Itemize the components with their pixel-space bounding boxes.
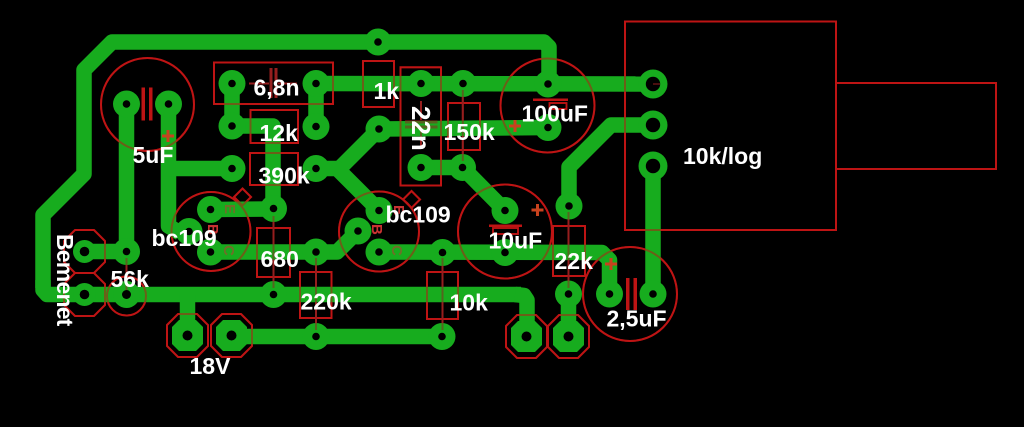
capacitor C1 6.8n plate bar 2 xyxy=(275,68,278,98)
svg-text:Bemenet: Bemenet xyxy=(52,234,78,327)
wire pot pad 3 down to 2.5uF right pad xyxy=(645,166,661,294)
svg-text:C: C xyxy=(220,245,237,256)
pad 5uF right xyxy=(155,91,182,118)
pad Q1 base xyxy=(176,218,203,245)
svg-text:10k/log: 10k/log xyxy=(683,143,762,169)
pad 680 bottom R4 pin 2 xyxy=(260,281,287,308)
svg-text:150k: 150k xyxy=(444,119,495,145)
capacitor C0 5uF plate bar 2 xyxy=(149,88,153,121)
svg-text:390k: 390k xyxy=(259,163,310,189)
capacitor C5 100uF plate box xyxy=(550,103,567,109)
resistor R4 680 lead xyxy=(273,216,275,288)
wire 150k bottom diagonal to 10uF plus xyxy=(463,168,506,211)
potentiometer 10k/log shaft outline xyxy=(836,83,996,169)
capacitor C6 2.5uF plate bar 2 xyxy=(634,278,638,310)
svg-text:1k: 1k xyxy=(374,78,400,104)
octagon outline output pad left xyxy=(506,315,547,358)
pad 10k bottom R7 pin 2 xyxy=(429,323,456,350)
pad 12k left R2 pin 1 xyxy=(219,113,246,140)
silkscreen layer pass 1 (bright on bare board) xyxy=(64,22,996,359)
wire 5uF right pad down (bar B) to Q1 base xyxy=(169,104,181,233)
capacitor C4 10uF plate box xyxy=(493,228,518,234)
capacitor C5 100uF outline xyxy=(501,59,595,153)
pad 22n top C2 pin 1 xyxy=(408,70,435,97)
capacitor C2 22n outline xyxy=(401,67,442,185)
wire pot pad 2 to 22k top pad xyxy=(569,125,653,206)
pad potentiometer pin 3 xyxy=(639,152,668,181)
pad Bemenet pin 1 xyxy=(73,240,96,263)
wire bar B to 390k left pad y=168.5 xyxy=(169,161,233,177)
pad potentiometer pin 2 xyxy=(639,111,668,140)
resistor R3 390k outline xyxy=(250,153,298,185)
pad 10uF minus xyxy=(492,239,519,266)
resistor R7 10k outline xyxy=(427,272,458,319)
diamond marker at Q1 xyxy=(234,189,251,206)
svg-text:B: B xyxy=(368,224,385,235)
pad junction on top trace xyxy=(365,29,392,56)
resistor R5 150k outline xyxy=(448,103,480,150)
svg-text:100uF: 100uF xyxy=(522,101,588,127)
resistor R8 22k lead xyxy=(568,212,570,288)
pad 12k right R2 pin 2 xyxy=(303,113,330,140)
capacitor C2 22n plate bar 1 xyxy=(405,121,438,124)
pad 22k top R8 pin 1 xyxy=(556,193,583,220)
pad 150k bottom R5 pin 2 xyxy=(449,154,476,181)
resistor R6 220k outline xyxy=(300,272,332,318)
transistor Q2 bc109 outline xyxy=(339,192,419,272)
diamond marker at Q2 xyxy=(403,191,420,208)
capacitor C4 10uF outline xyxy=(458,185,552,279)
pad 2.5uF minus (left) xyxy=(596,281,623,308)
pad 18V supply pin 1 (octagon) xyxy=(172,320,203,351)
wire Q1 emitter to 680 top pad xyxy=(211,201,274,217)
silkscreen layer pass 2 (50% blend where over copper) xyxy=(64,22,996,359)
capacitor C1 6.8n lead right xyxy=(278,83,297,85)
svg-text:10k: 10k xyxy=(450,290,489,316)
pad 2.5uF plus (right) xyxy=(640,281,667,308)
pad output octagon right xyxy=(553,321,584,352)
plus mark of 2.5uF xyxy=(605,258,617,270)
wire 12k left pad to 680 top via vertical x=273 xyxy=(232,126,273,209)
pad junction x=379 y=129 xyxy=(366,116,393,143)
wire ground trace corner down to output pad xyxy=(515,295,527,337)
wire branch down to 18V pad 1 xyxy=(180,295,196,336)
octagon outline Bemenet pad 2 xyxy=(64,273,105,316)
svg-text:5uF: 5uF xyxy=(133,142,174,168)
capacitor C1 6.8n lead left xyxy=(249,83,269,85)
resistor R1 56k outline (vertical package) xyxy=(107,277,146,316)
pad 6.8n right C1 pin 2 xyxy=(303,70,330,97)
svg-text:22k: 22k xyxy=(555,248,594,274)
pad potentiometer pin 1 xyxy=(639,70,668,99)
resistor R1 56k lead xyxy=(126,258,128,290)
pad 680 top R4 pin 1 xyxy=(260,195,287,222)
pad Q2 collector xyxy=(366,239,393,266)
pad 390k left R3 pin 1 xyxy=(219,155,246,182)
white name/value labels xyxy=(52,75,762,380)
pad 56k top R1 pin 1 xyxy=(113,238,140,265)
svg-text:220k: 220k xyxy=(301,289,352,315)
octagon outline 18V pad 2 xyxy=(211,314,252,357)
pad Bemenet pin 2 xyxy=(73,283,96,306)
svg-text:C: C xyxy=(388,245,405,256)
pad 100uF plus xyxy=(535,71,562,98)
svg-text:6,8n: 6,8n xyxy=(254,75,300,101)
svg-text:2,5uF: 2,5uF xyxy=(607,306,667,332)
resistor R6 220k lead xyxy=(315,258,317,330)
wire 22k bottom pad to output octagon pad xyxy=(561,294,577,337)
wire 6.8n right pad down to 12k right pad xyxy=(308,84,324,127)
pad Q2 emitter xyxy=(366,197,393,224)
plus mark of 5uF xyxy=(162,130,174,142)
svg-text:bc109: bc109 xyxy=(152,225,217,251)
capacitor C4 10uF plate bar xyxy=(489,225,522,228)
svg-text:18V: 18V xyxy=(190,353,232,379)
pad Q2 base xyxy=(345,218,372,245)
pad 220k top R6 pin 1 xyxy=(303,239,330,266)
resistor 1k outline xyxy=(363,61,394,107)
capacitor C0 5uF plate bar 1 xyxy=(142,88,146,121)
capacitor C2 22n lead bottom xyxy=(420,129,422,148)
wire 6.8n left pad down to 12k left pad xyxy=(224,84,240,127)
octagon outline 18V pad 1 xyxy=(167,314,208,357)
wire junction pad to 100uF minus xyxy=(379,128,548,130)
svg-text:680: 680 xyxy=(261,246,299,272)
wire Bemenet pad to 56k top pad xyxy=(85,244,127,260)
pad output octagon left xyxy=(511,321,542,352)
wire bottom-left corner to long ground trace y=294.5 xyxy=(43,280,521,295)
pad Q1 emitter xyxy=(197,196,224,223)
pad 10k top R7 pin 1 xyxy=(429,239,456,266)
octagon outline output pad right xyxy=(548,315,589,358)
pot pad1 lead xyxy=(653,83,660,85)
plus mark of 100uF xyxy=(509,120,521,132)
svg-text:bc109: bc109 xyxy=(386,202,451,228)
pad 150k top R5 pin 1 xyxy=(450,70,477,97)
capacitor C2 22n lead top xyxy=(420,101,422,120)
octagon outline Bemenet pad 1 xyxy=(64,230,105,273)
capacitor C6 2.5uF outline xyxy=(583,247,677,341)
pad 390k right R3 pin 2 xyxy=(303,155,330,182)
capacitor C6 2.5uF plate bar 1 xyxy=(626,278,630,310)
capacitor C1 6.8n outline xyxy=(214,63,333,105)
plus mark of 10uF xyxy=(532,204,544,216)
svg-text:10uF: 10uF xyxy=(489,228,543,254)
wire 390k right pad diagonal to Q2 emitter xyxy=(316,169,379,211)
pad Q1 collector xyxy=(197,239,224,266)
resistor R5 150k lead xyxy=(462,90,464,161)
capacitor C0 5uF outline xyxy=(101,58,194,151)
resistor R4 680 outline xyxy=(257,228,290,277)
potentiometer 10k/log body outline xyxy=(625,22,836,231)
wire Q1 collector to 220k top pad and on to Q2 base xyxy=(211,231,359,252)
pad 56k bottom R1 pin 2 xyxy=(113,281,140,308)
capacitor C1 6.8n plate bar 1 xyxy=(270,68,273,98)
wire signal trace y=83.5 through 1k 22n 150k to pot pad 1 xyxy=(316,76,650,92)
svg-text:22n: 22n xyxy=(406,106,436,151)
pad 10uF plus xyxy=(492,197,519,224)
copper traces and pads layer xyxy=(43,29,668,353)
pad 18V supply pin 2 (octagon) xyxy=(216,320,247,351)
wire bottom supply trace y=336.5 xyxy=(232,329,443,345)
wire 22n bottom to 150k bottom xyxy=(421,160,463,176)
pad 22n bottom C2 pin 2 xyxy=(408,154,435,181)
capacitor C5 100uF plate bar xyxy=(533,99,568,102)
resistor R2 12k outline xyxy=(251,110,299,143)
svg-text:12k: 12k xyxy=(260,120,299,146)
pad 100uF minus xyxy=(535,114,562,141)
pad 22k bottom R8 pin 2 xyxy=(555,281,582,308)
resistor R7 10k lead xyxy=(442,258,444,330)
pad 6.8n left C1 pin 1 xyxy=(219,70,246,97)
svg-text:E: E xyxy=(221,204,238,214)
pad 5uF left xyxy=(113,91,140,118)
wire main top trace with corners xyxy=(43,42,549,288)
capacitor C2 22n plate bar 2 xyxy=(405,126,438,129)
wire Q2 collector to 10uF minus to 2.5uF left pad xyxy=(379,252,610,294)
wire 5uF left pad down (bar A) xyxy=(119,104,135,252)
resistor R8 22k outline xyxy=(553,226,585,276)
wire diagonal from junction pad down-left xyxy=(337,129,379,171)
transistor Q1 bc109 outline xyxy=(172,192,251,271)
pad 220k bottom R6 pin 2 xyxy=(303,323,330,350)
svg-text:56k: 56k xyxy=(111,266,150,292)
